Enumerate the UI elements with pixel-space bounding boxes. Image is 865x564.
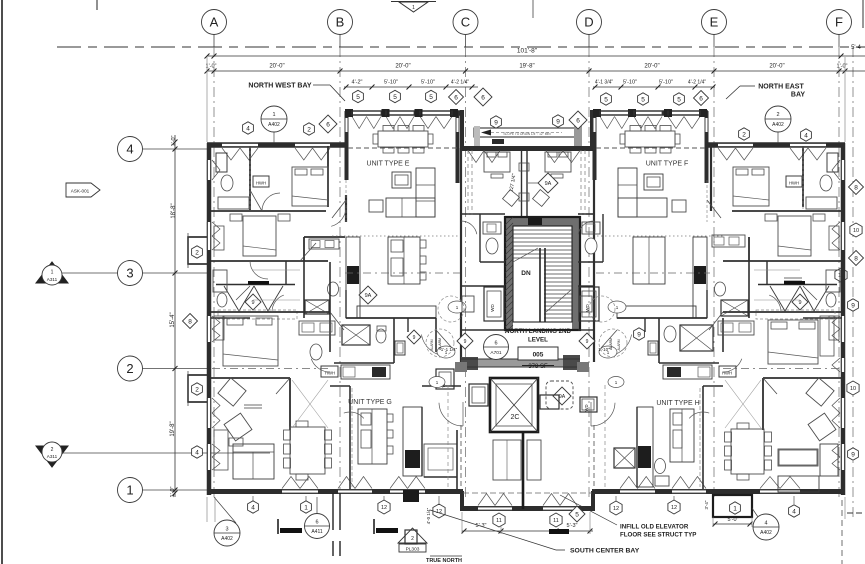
svg-text:2: 2 bbox=[307, 126, 311, 133]
bottom F dash bbox=[841, 500, 843, 564]
unit F sofa bbox=[618, 168, 667, 217]
svg-text:A402: A402 bbox=[268, 122, 280, 128]
grid line F5 right bbox=[852, 47, 854, 520]
unit H bath2 bbox=[655, 459, 670, 487]
svg-text:HWH: HWH bbox=[325, 371, 335, 376]
svg-text:9: 9 bbox=[851, 302, 855, 309]
bottom hex 4 bbox=[248, 501, 259, 513]
unit G turning circle bbox=[426, 329, 454, 357]
unit G shower bbox=[395, 341, 405, 355]
svg-text:1: 1 bbox=[412, 5, 415, 11]
hex 9 walkway R bbox=[553, 115, 564, 127]
revision triangle 1 top bbox=[391, 2, 436, 13]
bay glazing mullions bbox=[352, 111, 700, 116]
corridor dash D bbox=[581, 150, 585, 215]
svg-text:UNIT TYPE H: UNIT TYPE H bbox=[656, 400, 699, 407]
unit F coffee table bbox=[644, 174, 663, 190]
door tag 446 bbox=[437, 346, 455, 358]
turning circle F hall bbox=[589, 296, 615, 322]
svg-text:12: 12 bbox=[671, 505, 677, 511]
row2 dash across bbox=[212, 368, 841, 370]
bottom hexagon stems bbox=[253, 496, 794, 504]
unit F sink pair bbox=[712, 235, 745, 247]
svg-text:ALARM: ALARM bbox=[609, 338, 613, 350]
label NORTH WEST BAY bbox=[248, 83, 345, 102]
svg-text:1: 1 bbox=[126, 483, 133, 498]
left wall window triangles bbox=[212, 160, 220, 470]
unit F dining table bbox=[620, 126, 680, 154]
svg-text:9A: 9A bbox=[559, 394, 566, 400]
unit H sinks bbox=[718, 321, 754, 335]
south bay windows bbox=[463, 493, 592, 510]
stair core walls bbox=[505, 217, 580, 330]
NW bay dim line bbox=[344, 80, 478, 90]
svg-text:5'-3": 5'-3" bbox=[567, 523, 578, 529]
unit H side bbox=[820, 316, 834, 356]
svg-text:5'-0": 5'-0" bbox=[728, 517, 739, 523]
svg-text:C: C bbox=[461, 15, 470, 30]
unit divider wall GH bbox=[522, 432, 525, 509]
svg-text:HWH: HWH bbox=[722, 371, 732, 376]
divider cabinets bbox=[493, 440, 541, 480]
WD closet R bbox=[579, 287, 599, 321]
unit E sofa bbox=[386, 168, 435, 217]
svg-text:2: 2 bbox=[51, 447, 54, 453]
label UNIT TYPE H bbox=[656, 400, 699, 407]
center top windows bbox=[468, 151, 580, 163]
landing band bbox=[461, 355, 580, 370]
stair DN label bbox=[521, 270, 531, 277]
turning circle E hall bbox=[438, 296, 464, 322]
svg-text:3: 3 bbox=[225, 527, 228, 533]
stair left wall hatch bbox=[505, 217, 513, 333]
svg-text:19'-8": 19'-8" bbox=[519, 64, 534, 70]
row3 dash mid bbox=[345, 272, 710, 274]
NE bay windows bbox=[600, 111, 700, 129]
unit G upper counter bbox=[341, 365, 390, 379]
unit G sofa bbox=[229, 438, 274, 479]
unit E 9A diamond bbox=[359, 286, 377, 304]
label SOUTH CENTER BAY bbox=[430, 510, 640, 555]
NW bay hexagons bbox=[353, 90, 464, 105]
svg-text:F: F bbox=[835, 15, 843, 30]
label UNIT TYPE G bbox=[348, 399, 392, 406]
left vertical dim chain bbox=[170, 135, 177, 497]
svg-text:2: 2 bbox=[411, 536, 414, 542]
svg-text:2: 2 bbox=[776, 112, 779, 118]
sheet border left edge bbox=[1, 0, 3, 564]
svg-text:20'-0": 20'-0" bbox=[269, 64, 284, 70]
svg-text:2C: 2C bbox=[511, 414, 520, 421]
stair side bath L bbox=[480, 214, 501, 262]
dim line 101-8 bbox=[205, 45, 865, 58]
unit H sofa bbox=[778, 444, 838, 492]
unit G tub bbox=[424, 430, 457, 489]
vertical grid lines A-F dashdot bbox=[214, 47, 839, 497]
stair side walls lower bbox=[461, 262, 603, 286]
unit H oval 1 bbox=[608, 377, 624, 388]
right marker hex 10 bbox=[850, 223, 862, 237]
svg-text:NORTH LANDING 2ND: NORTH LANDING 2ND bbox=[505, 328, 572, 335]
unit H WD closet bbox=[580, 397, 597, 412]
unit F hall walls bbox=[617, 262, 842, 318]
svg-text:11: 11 bbox=[496, 518, 502, 524]
right wall window triangles bbox=[832, 160, 840, 470]
svg-text:10: 10 bbox=[853, 228, 859, 234]
svg-text:ALARM: ALARM bbox=[617, 339, 621, 350]
svg-text:1: 1 bbox=[304, 504, 308, 511]
label NORTH EAST BAY bbox=[726, 84, 805, 100]
unit G bath walls bbox=[334, 318, 408, 363]
svg-text:A402: A402 bbox=[221, 536, 233, 542]
unit G toilet2 bbox=[376, 326, 386, 343]
right col bath2 bbox=[826, 270, 840, 307]
svg-text:ASK-001: ASK-001 bbox=[71, 189, 90, 194]
dim line bay spacing bbox=[205, 64, 865, 74]
unit E side table bbox=[369, 200, 383, 212]
right marker diamond 8b bbox=[849, 251, 864, 266]
svg-text:5'-10": 5'-10" bbox=[623, 80, 637, 86]
top wall windows bbox=[222, 143, 826, 160]
north entry walkway bbox=[474, 126, 582, 146]
diamond 9A corridor bbox=[528, 173, 558, 193]
right marker hex 9 bbox=[848, 299, 859, 311]
svg-text:UNIT TYPE G: UNIT TYPE G bbox=[348, 399, 392, 406]
section marker 1/A311 bbox=[36, 262, 118, 285]
elevator 2C box bbox=[490, 378, 538, 432]
svg-text:2: 2 bbox=[742, 131, 746, 138]
unit F bath fixtures bbox=[786, 153, 838, 209]
svg-text:UNIT TYPE F: UNIT TYPE F bbox=[646, 161, 689, 168]
svg-text:4'-2 1/4": 4'-2 1/4" bbox=[688, 80, 707, 86]
svg-text:9: 9 bbox=[494, 119, 498, 126]
svg-text:5: 5 bbox=[677, 96, 681, 103]
svg-text:4'-2": 4'-2" bbox=[352, 80, 363, 86]
label UNIT TYPE E bbox=[367, 161, 410, 168]
door header dashes bbox=[250, 146, 803, 222]
unit G hwh bbox=[321, 366, 338, 377]
svg-text:5: 5 bbox=[429, 94, 433, 101]
svg-text:15'-4": 15'-4" bbox=[170, 312, 176, 327]
unit E kitchen island bbox=[388, 237, 426, 284]
bay side glazing bbox=[345, 118, 708, 132]
svg-text:9: 9 bbox=[798, 300, 801, 306]
stair lower bath L bbox=[461, 296, 505, 330]
unit G WD closet bbox=[436, 369, 454, 389]
unit F bed 2 bbox=[765, 214, 825, 256]
bottom hex 12d bbox=[668, 500, 680, 514]
right marker hex 9b bbox=[848, 448, 859, 460]
WD closet L bbox=[484, 287, 504, 321]
svg-text:1: 1 bbox=[733, 505, 737, 512]
unit F bed 1 bbox=[733, 167, 769, 206]
unit F kitchen counter bbox=[617, 237, 707, 318]
svg-text:20'-0": 20'-0" bbox=[395, 64, 410, 70]
svg-text:WD: WD bbox=[584, 405, 589, 412]
svg-text:4'-1 3/4": 4'-1 3/4" bbox=[595, 80, 614, 86]
corridor dash C bbox=[468, 150, 472, 215]
svg-text:4: 4 bbox=[126, 142, 133, 157]
unit E dining table bbox=[373, 126, 433, 154]
diamond 6 center-left bbox=[474, 88, 492, 106]
hex 4 left bbox=[243, 122, 254, 134]
svg-text:5'-10": 5'-10" bbox=[659, 80, 673, 86]
svg-text:11: 11 bbox=[553, 518, 559, 524]
hex 9 walkway L bbox=[491, 116, 502, 128]
center corridor walls bbox=[461, 148, 594, 362]
unit H entry walls bbox=[594, 385, 637, 387]
bottom hex 12a bbox=[378, 500, 390, 514]
svg-text:UNIT TYPE E: UNIT TYPE E bbox=[367, 161, 410, 168]
bottom left ticks bbox=[207, 497, 845, 522]
svg-text:LEVEL: LEVEL bbox=[528, 337, 548, 344]
unit H dining bbox=[725, 423, 772, 480]
door arcs bbox=[250, 193, 781, 418]
detail circle 2/A402 bbox=[765, 106, 791, 143]
unit G bath bbox=[310, 344, 322, 360]
svg-text:9: 9 bbox=[851, 451, 855, 458]
svg-text:18'-8": 18'-8" bbox=[171, 203, 177, 218]
unit H shafts bbox=[614, 300, 748, 468]
unit E dresser bbox=[214, 226, 224, 340]
bottom rot dim 4-0 bbox=[426, 507, 431, 524]
svg-text:1'-0": 1'-0" bbox=[837, 64, 848, 70]
unit H turning circle bbox=[599, 329, 627, 357]
unit H island bbox=[670, 409, 694, 462]
svg-text:DN: DN bbox=[521, 270, 531, 277]
svg-text:9A: 9A bbox=[365, 293, 372, 299]
svg-text:WD: WD bbox=[490, 304, 495, 312]
svg-text:NORTH WEST BAY: NORTH WEST BAY bbox=[248, 83, 311, 90]
svg-text:005: 005 bbox=[533, 352, 544, 359]
bottom rot dim 3-4 bbox=[704, 500, 709, 509]
svg-text:4: 4 bbox=[804, 132, 808, 139]
grid row bubbles 1-4 bbox=[118, 137, 208, 503]
unit G sinks bbox=[299, 321, 335, 335]
label UNIT TYPE F bbox=[646, 161, 689, 168]
svg-text:A402: A402 bbox=[772, 122, 784, 128]
unit E coffee table bbox=[392, 172, 411, 188]
detail circle 1/A402 bbox=[261, 106, 287, 143]
svg-text:5: 5 bbox=[393, 94, 397, 101]
ceiling break dotted E bbox=[332, 235, 458, 237]
triangle 2/PL303 bbox=[398, 528, 427, 553]
svg-text:HWH: HWH bbox=[256, 181, 266, 186]
bottom hex 12c bbox=[610, 501, 622, 515]
unit F kitchen island bbox=[633, 237, 665, 284]
detail circle 3/A402 bbox=[214, 497, 240, 546]
svg-text:2: 2 bbox=[195, 249, 199, 256]
unit H closet2 bbox=[725, 380, 761, 428]
svg-text:9: 9 bbox=[251, 300, 254, 306]
left col bath2 bbox=[213, 270, 227, 307]
svg-text:1'-0": 1'-0" bbox=[171, 135, 177, 146]
unit E walls bbox=[211, 146, 346, 284]
horizontal dash line y47 bbox=[57, 46, 865, 48]
unit entry tick boxes bbox=[455, 362, 589, 372]
unit G counter bbox=[403, 407, 422, 476]
door tag 608 bbox=[599, 346, 617, 358]
svg-text:INFILL OLD ELEVATOR: INFILL OLD ELEVATOR bbox=[620, 524, 689, 531]
svg-text:12: 12 bbox=[613, 506, 619, 512]
unit F walls bbox=[711, 146, 842, 284]
svg-text:A701: A701 bbox=[490, 350, 502, 356]
svg-text:8: 8 bbox=[854, 184, 858, 191]
dim 127 corridor bbox=[508, 150, 529, 216]
svg-text:SOUTH CENTER BAY: SOUTH CENTER BAY bbox=[570, 548, 640, 555]
svg-text:B: B bbox=[336, 15, 345, 30]
svg-text:SLOPE TO DRAIN 1/4" : 12" MIN: SLOPE TO DRAIN 1/4" : 12" MIN bbox=[503, 132, 551, 136]
unit G shafts bbox=[305, 300, 370, 345]
svg-text:3'-4": 3'-4" bbox=[704, 500, 709, 509]
bottom dim 5-0 bbox=[713, 517, 753, 527]
svg-text:9: 9 bbox=[413, 335, 416, 341]
bay mullion posts bbox=[345, 109, 707, 117]
unit E kitchen counter bbox=[346, 237, 436, 318]
svg-text:NORTH EAST: NORTH EAST bbox=[758, 84, 804, 91]
truenorth fragment bbox=[426, 556, 462, 564]
svg-text:ALARM: ALARM bbox=[438, 338, 442, 350]
unit E bed 1 bbox=[292, 167, 328, 206]
svg-text:2: 2 bbox=[126, 361, 133, 376]
vestibule 9A bbox=[546, 381, 573, 409]
svg-text:HWH: HWH bbox=[789, 181, 799, 186]
unit G island bbox=[358, 409, 393, 464]
svg-text:A411: A411 bbox=[311, 529, 323, 535]
svg-text:5'-4: 5'-4 bbox=[851, 45, 861, 51]
right wall windows bbox=[841, 160, 845, 470]
bottom dim 5-3 L bbox=[462, 512, 524, 534]
svg-text:101'-8": 101'-8" bbox=[517, 48, 538, 55]
bottom hex 11a bbox=[493, 513, 505, 527]
svg-text:1: 1 bbox=[272, 112, 275, 118]
left marker hex 4 bbox=[192, 446, 203, 458]
elevator side closets bbox=[469, 384, 559, 409]
svg-text:BAY: BAY bbox=[791, 92, 805, 99]
bottom hex 1 bbox=[301, 501, 312, 513]
svg-text:3: 3 bbox=[126, 266, 133, 281]
unit G closet2 bbox=[292, 380, 328, 428]
ASK-001 flag bbox=[66, 183, 100, 197]
bay opening dash bbox=[348, 147, 705, 149]
alarm dim R bbox=[579, 333, 613, 352]
walkway label line bbox=[503, 132, 551, 136]
unit E bath fixtures bbox=[216, 153, 269, 209]
closet shelves bbox=[253, 270, 800, 300]
unit H walls bbox=[703, 312, 842, 489]
svg-text:20'-0": 20'-0" bbox=[644, 64, 659, 70]
section marker 2/A311 bbox=[36, 442, 270, 467]
bottom hex 12b bbox=[433, 504, 445, 518]
svg-text:5: 5 bbox=[356, 94, 360, 101]
unit G dining bbox=[284, 421, 332, 480]
label 378 SF bbox=[522, 364, 554, 370]
center bed L bbox=[484, 152, 510, 178]
svg-text:6: 6 bbox=[326, 121, 330, 128]
stair top landing block bbox=[528, 218, 542, 225]
left wall windows bbox=[207, 160, 211, 470]
unit E closet bifold bbox=[216, 261, 339, 319]
ceiling break dotted F bbox=[597, 235, 723, 237]
NE bay dim line bbox=[593, 80, 716, 90]
svg-text:ALARM: ALARM bbox=[430, 339, 434, 350]
bottom wall windows bbox=[282, 477, 800, 494]
sheet tick top bbox=[97, 0, 533, 18]
unit G chairs bbox=[218, 378, 262, 441]
label NORTH LANDING bbox=[505, 328, 572, 344]
balcony box row3 bbox=[188, 237, 209, 264]
svg-text:9: 9 bbox=[586, 339, 589, 345]
svg-text:5: 5 bbox=[575, 511, 579, 518]
svg-text:A311: A311 bbox=[47, 454, 58, 459]
unit E sink pair bbox=[309, 239, 339, 249]
left marker diamond 8 bbox=[183, 314, 198, 329]
bottom box hex 1 bbox=[713, 495, 752, 517]
door tag 457 bbox=[448, 301, 466, 313]
hex 2 right bbox=[739, 128, 750, 140]
svg-text:8: 8 bbox=[188, 318, 192, 325]
south hall dashes bbox=[448, 385, 605, 490]
svg-text:5'-10": 5'-10" bbox=[384, 80, 398, 86]
svg-text:1'-0": 1'-0" bbox=[170, 486, 176, 497]
unit E hall walls bbox=[211, 262, 436, 318]
svg-text:A311: A311 bbox=[47, 277, 58, 282]
NW bay windows bbox=[352, 111, 452, 129]
corridor chairs bbox=[503, 190, 550, 207]
grid column bubbles A-F bbox=[202, 10, 852, 48]
unit H coffee table bbox=[779, 450, 817, 465]
detail circle 4/A402 bbox=[752, 508, 779, 540]
unit H bed bbox=[768, 320, 818, 364]
right edge dash bbox=[847, 0, 865, 513]
bottom diamond 5 bbox=[569, 506, 585, 522]
unit G diamond 9 bbox=[407, 330, 421, 344]
diamond 6 walkway bbox=[569, 111, 587, 129]
unit G upper cabinets dash bbox=[352, 388, 700, 487]
unit G bed bbox=[223, 316, 278, 366]
svg-text:10: 10 bbox=[850, 386, 856, 392]
hex 4 right bbox=[801, 129, 812, 141]
svg-text:5: 5 bbox=[641, 96, 645, 103]
diamond 6 left bbox=[319, 115, 337, 133]
bottom columns bbox=[333, 490, 419, 556]
svg-text:4'-2 1/4": 4'-2 1/4" bbox=[451, 80, 470, 86]
bottom hex 4b bbox=[789, 505, 800, 517]
svg-text:6: 6 bbox=[494, 341, 497, 347]
svg-text:8: 8 bbox=[854, 255, 858, 262]
svg-text:20'-0": 20'-0" bbox=[769, 64, 784, 70]
svg-text:9: 9 bbox=[556, 118, 560, 125]
svg-text:PL303: PL303 bbox=[406, 547, 420, 553]
stair lower bath R bbox=[578, 296, 594, 330]
alarm dim L bbox=[438, 333, 473, 352]
south hall arcs bbox=[439, 402, 615, 426]
unit H counter bbox=[637, 407, 653, 487]
svg-text:4: 4 bbox=[764, 521, 767, 527]
unit G walls bbox=[211, 312, 350, 489]
svg-text:4: 4 bbox=[195, 449, 199, 456]
svg-text:4: 4 bbox=[246, 125, 250, 132]
unit F side table bbox=[672, 200, 686, 212]
detail circle 6/A411 bbox=[305, 497, 330, 539]
bottom dim 5-3 R bbox=[524, 512, 593, 534]
svg-text:5'-10": 5'-10" bbox=[421, 80, 435, 86]
label INFILL bbox=[560, 495, 696, 539]
unit H hwh bbox=[719, 366, 736, 377]
stair treads bbox=[513, 230, 572, 322]
svg-text:4: 4 bbox=[251, 504, 255, 511]
right marker hex 10b bbox=[847, 381, 859, 395]
